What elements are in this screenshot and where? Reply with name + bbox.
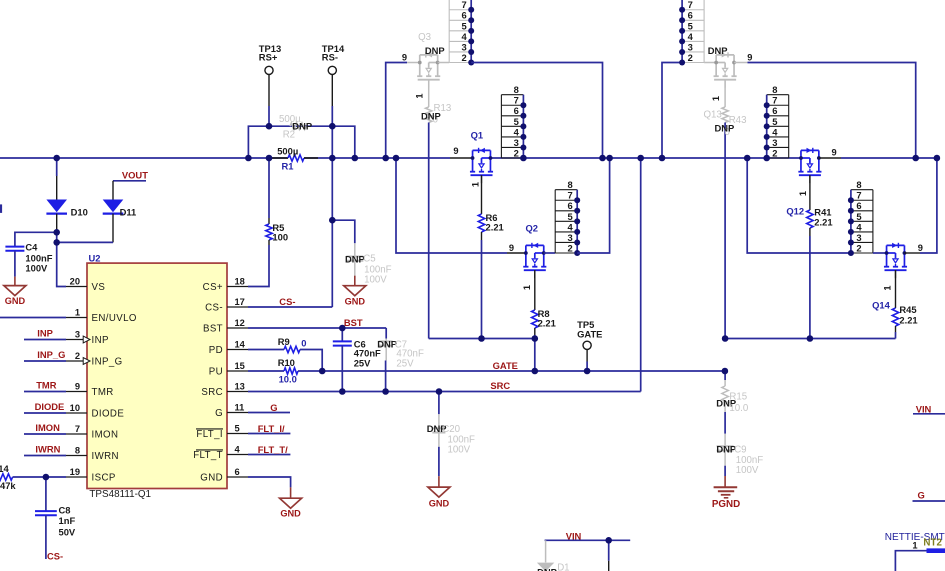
pin 9 label Q14 gate — [918, 243, 923, 253]
svg-text:DNP: DNP — [537, 566, 557, 571]
wire net IMON stub — [24, 433, 66, 435]
node ISCP/C8 junction — [43, 474, 50, 481]
capacitor C8 1nF 50V — [35, 477, 57, 559]
svg-text:7: 7 — [75, 424, 80, 434]
svg-text:GATE: GATE — [493, 360, 518, 371]
svg-text:100V: 100V — [448, 444, 471, 455]
svg-text:RS-: RS- — [322, 52, 338, 63]
svg-text:7: 7 — [856, 190, 861, 201]
resistor R45 2.21 on Q14 source — [892, 270, 898, 338]
label TP5 GATE — [577, 319, 602, 339]
wire net DIODE stub — [24, 412, 66, 414]
svg-text:2.21: 2.21 — [899, 314, 917, 325]
net tie NT2 NETTIE-SMT2 — [885, 532, 945, 571]
svg-text:BST: BST — [203, 324, 223, 335]
svg-text:C20: C20 — [442, 424, 460, 435]
net label G — [270, 402, 277, 413]
svg-text:6: 6 — [567, 200, 572, 211]
wire FLT_T stub pin 4 — [248, 454, 290, 456]
net label CS- bottom — [47, 550, 63, 561]
wire GATE rail (PU) — [322, 370, 725, 372]
svg-text:9: 9 — [402, 52, 407, 62]
pin 9 label Q13 gate — [747, 52, 752, 62]
svg-text:GND: GND — [345, 296, 366, 306]
net label SRC — [490, 380, 510, 391]
svg-text:5: 5 — [514, 116, 519, 127]
svg-text:7: 7 — [461, 0, 466, 10]
svg-text:Q14: Q14 — [872, 299, 891, 310]
net label BST — [344, 317, 363, 328]
svg-text:15: 15 — [235, 361, 245, 371]
capacitor C5 DNP (grey) — [346, 243, 363, 277]
svg-text:10: 10 — [70, 403, 80, 413]
svg-text:9: 9 — [75, 381, 80, 391]
pin 19 ISCP of U2 — [66, 467, 116, 484]
resistor R9 0 — [248, 346, 322, 371]
designator D11 — [120, 207, 137, 218]
pin 14 PD of U2 — [209, 339, 248, 356]
svg-text:VS: VS — [92, 282, 106, 293]
node VOUT label — [113, 169, 148, 181]
svg-text:PU: PU — [209, 367, 223, 378]
wire Q14 gate riser — [904, 158, 936, 253]
svg-text:2: 2 — [772, 147, 777, 158]
svg-text:5: 5 — [856, 211, 861, 222]
wire Q14 stack riser — [747, 158, 851, 253]
pin 9 TMR of U2 — [66, 381, 114, 398]
DNP label for Q13 — [708, 45, 728, 56]
pin 11 G of U2 — [215, 402, 248, 419]
svg-text:4: 4 — [567, 221, 573, 232]
svg-text:G: G — [270, 402, 277, 413]
value labels C4 — [25, 242, 52, 274]
svg-text:Q12: Q12 — [786, 205, 804, 216]
svg-text:FLT_I/: FLT_I/ — [258, 423, 285, 434]
svg-text:RS+: RS+ — [259, 52, 278, 63]
pin stack of Q3 (grey ladder) — [449, 0, 474, 66]
pin 1 label Q12 — [798, 191, 808, 196]
svg-text:R15: R15 — [729, 392, 747, 403]
pin 18 CS+ of U2 — [203, 276, 248, 293]
svg-text:FLT_I: FLT_I — [196, 429, 223, 440]
designator Q1 — [471, 130, 484, 141]
svg-text:D1: D1 — [557, 562, 569, 571]
svg-text:1: 1 — [415, 93, 425, 98]
pin 1 EN/UVLO of U2 — [66, 307, 137, 324]
svg-text:2.21: 2.21 — [814, 217, 832, 228]
pin 9 label Q3 gate — [402, 52, 407, 62]
labels R10 10.0 — [278, 357, 297, 385]
svg-text:3: 3 — [461, 41, 466, 52]
designator D1 (grey) — [557, 562, 569, 571]
pin 5 FLT_I of U2 — [196, 423, 248, 440]
svg-text:C9: C9 — [734, 444, 746, 455]
labels R41 2.21 — [814, 206, 832, 227]
junction dots misc — [53, 123, 813, 544]
node VIN label right — [913, 403, 945, 414]
svg-text:100: 100 — [272, 232, 288, 243]
node G label right — [913, 489, 945, 501]
svg-text:9: 9 — [832, 148, 837, 158]
svg-text:5: 5 — [567, 211, 572, 222]
resistor R43 DNP 0 (grey) on Q13 source — [722, 80, 728, 339]
resistor R6 2.21 on Q1 source — [478, 175, 484, 338]
designator R2 (grey) — [283, 130, 295, 141]
svg-text:9: 9 — [918, 243, 923, 253]
wire D11 cathode to D10 node — [57, 241, 113, 243]
svg-text:2: 2 — [75, 351, 80, 361]
pin stack of Q1 — [501, 84, 526, 161]
wire Q2 gate riser — [396, 158, 526, 253]
svg-text:8: 8 — [772, 84, 777, 95]
svg-text:8: 8 — [75, 445, 80, 455]
svg-text:GND: GND — [5, 296, 26, 306]
svg-text:VOUT: VOUT — [122, 169, 148, 180]
svg-text:4: 4 — [772, 126, 778, 137]
wire Q2 drain to stack — [544, 252, 555, 254]
svg-text:GND: GND — [200, 473, 223, 484]
net label CS- — [279, 296, 295, 307]
svg-text:4: 4 — [514, 126, 520, 137]
svg-text:5: 5 — [772, 116, 777, 127]
designator R1 — [282, 161, 294, 172]
wire CS+ riser to pin 18 — [248, 245, 269, 287]
designator Q2 — [526, 223, 539, 234]
labels R9 0 — [278, 336, 307, 349]
pin 13 SRC of U2 — [201, 381, 248, 398]
diode D11 — [103, 181, 124, 243]
svg-text:18: 18 — [235, 276, 245, 286]
wire VIN bottom — [545, 540, 631, 571]
resistor R10 10.0 — [248, 368, 322, 374]
wire BST rail — [248, 327, 386, 329]
svg-text:FLT_T/: FLT_T/ — [258, 444, 288, 455]
svg-text:8: 8 — [567, 179, 572, 190]
svg-text:4: 4 — [235, 444, 241, 454]
svg-text:CS-: CS- — [279, 296, 295, 307]
svg-text:7: 7 — [514, 95, 519, 106]
svg-text:20: 20 — [70, 276, 80, 286]
wire GND pin 6 to ground — [248, 477, 291, 487]
pin stack of Q13 (grey ladder) — [679, 0, 704, 66]
svg-text:9: 9 — [509, 243, 514, 253]
resistor R14 47k (cut at edge) — [0, 474, 66, 480]
svg-text:9: 9 — [453, 146, 458, 156]
wire Q13 stack to fet — [704, 62, 716, 64]
svg-text:IWRN: IWRN — [35, 444, 60, 455]
svg-text:IMON: IMON — [92, 430, 119, 441]
designator Q3 — [418, 32, 431, 43]
svg-text:R9: R9 — [278, 336, 290, 347]
pin 1 label Q13 — [711, 96, 721, 101]
resistor R8 2.21 on Q2 source — [532, 270, 538, 371]
svg-text:1: 1 — [471, 182, 481, 187]
net label GATE — [493, 360, 518, 371]
svg-text:3: 3 — [75, 329, 80, 339]
capacitor C7 DNP 470nF (grey) — [379, 328, 393, 392]
capacitor C20 DNP 100nF (grey) — [432, 392, 445, 477]
wire Q13 gate riser — [734, 63, 916, 159]
svg-text:BST: BST — [344, 317, 363, 328]
pin 15 PU of U2 — [209, 361, 248, 378]
test point TP13 RS+ — [265, 66, 273, 126]
svg-text:4: 4 — [856, 221, 862, 232]
svg-text:13: 13 — [235, 381, 245, 391]
svg-text:1: 1 — [912, 541, 917, 551]
svg-text:14: 14 — [235, 339, 246, 349]
svg-text:Q2: Q2 — [526, 223, 539, 234]
svg-text:5: 5 — [461, 20, 466, 31]
DNP label for R15 — [716, 397, 736, 408]
capacitor C9 DNP 100nF (grey) — [717, 434, 734, 476]
svg-text:1: 1 — [711, 96, 721, 101]
svg-text:100V: 100V — [736, 465, 759, 476]
svg-text:50V: 50V — [59, 526, 76, 537]
svg-text:100nF: 100nF — [736, 455, 764, 466]
net label FLT_T/ — [258, 444, 288, 455]
svg-text:10.0: 10.0 — [729, 403, 748, 414]
wire C4 branch — [15, 232, 57, 246]
wire G stub pin 11 — [248, 412, 290, 414]
pin 1 label Q2 — [522, 285, 532, 290]
pin 8 IWRN of U2 — [66, 445, 119, 462]
svg-text:3: 3 — [514, 137, 519, 148]
pin 9 label Q12 gate — [832, 148, 837, 158]
wire net TMR stub — [24, 391, 66, 393]
DNP label for D1 (cut) — [537, 566, 557, 571]
svg-text:SRC: SRC — [490, 380, 510, 391]
svg-text:3: 3 — [688, 41, 693, 52]
wire D10 node down to VS pin — [57, 232, 66, 286]
svg-text:DIODE: DIODE — [35, 401, 65, 412]
labels R13 0 (grey) — [433, 103, 452, 126]
svg-text:100V: 100V — [25, 262, 48, 273]
value labels C20 (grey) — [442, 424, 475, 456]
svg-text:ISCP: ISCP — [92, 473, 116, 484]
svg-text:DNP: DNP — [708, 45, 728, 56]
svg-text:1: 1 — [75, 307, 80, 317]
wire R13-R6-R8 interconnect — [429, 338, 535, 340]
value labels C8 — [59, 505, 76, 538]
svg-text:2: 2 — [567, 242, 572, 253]
node VIN label bottom — [566, 530, 582, 541]
svg-text:2: 2 — [514, 147, 519, 158]
svg-text:SRC: SRC — [201, 387, 223, 398]
junction dots on main bus — [53, 155, 940, 162]
wire Q12 gate to risers — [819, 157, 841, 159]
labels R43 0 (grey) — [725, 115, 747, 138]
labels R6 2.21 — [486, 212, 504, 232]
svg-text:2.21: 2.21 — [486, 221, 504, 232]
svg-text:GND: GND — [429, 499, 450, 509]
svg-text:R10: R10 — [278, 357, 295, 368]
label TP13 RS+ — [259, 43, 281, 63]
ground GND under C4 — [4, 277, 26, 307]
wire FLT_I stub pin 5 — [248, 433, 290, 435]
svg-text:1: 1 — [522, 285, 532, 290]
svg-text:Q1: Q1 — [471, 130, 484, 141]
resistor R41 2.21 on Q12 source — [807, 175, 813, 338]
pin 9 label Q2 gate — [509, 243, 514, 253]
wire Q14 stack to fet — [873, 252, 887, 254]
svg-text:3: 3 — [567, 232, 572, 243]
svg-text:25V: 25V — [354, 358, 371, 369]
IC U2 TPS48111-Q1 hot-swap controller body — [87, 263, 227, 488]
svg-text:C4: C4 — [25, 242, 38, 253]
diode D1 DNP (grey) — [537, 540, 554, 571]
labels R15 10.0 (grey) — [729, 392, 748, 415]
resistor R2 DNP 500u (grey) — [290, 123, 306, 129]
svg-text:9: 9 — [747, 52, 752, 62]
svg-text:DNP: DNP — [292, 121, 312, 132]
svg-text:5: 5 — [688, 20, 693, 31]
svg-text:R1: R1 — [282, 161, 294, 172]
wire Q3 stack to bus riser — [471, 63, 602, 159]
svg-text:11: 11 — [235, 402, 245, 412]
wire R43-R41-R45 interconnect — [725, 338, 895, 340]
svg-text:8: 8 — [856, 179, 861, 190]
capacitor C4 100nF 100V — [5, 247, 24, 277]
pin 3 INP of U2 — [66, 329, 109, 346]
svg-text:CS-: CS- — [47, 550, 63, 561]
ground GND under pin 6 — [280, 487, 302, 518]
value label 500u for R1 — [277, 145, 298, 156]
svg-text:DNP: DNP — [715, 122, 735, 133]
pin 7 IMON of U2 — [66, 424, 118, 441]
svg-text:VIN: VIN — [916, 403, 932, 414]
svg-text:6: 6 — [514, 105, 519, 116]
svg-text:FLT_T: FLT_T — [193, 450, 223, 461]
svg-text:2: 2 — [461, 52, 466, 63]
wire Q3 drain to pin stack — [438, 62, 450, 64]
wire R2 DNP bypass loop — [248, 126, 354, 158]
svg-text:Q13: Q13 — [704, 110, 722, 121]
resistor R1 500u current sense — [272, 155, 318, 161]
svg-text:7: 7 — [688, 0, 693, 10]
transistor Q14 — [884, 243, 907, 278]
svg-text:1: 1 — [882, 285, 892, 290]
designator U2 — [89, 253, 101, 264]
part number TPS48111-Q1 — [89, 489, 151, 500]
pin 4 FLT_T of U2 — [193, 444, 248, 461]
labels R45 2.21 — [899, 304, 917, 325]
svg-text:GND: GND — [280, 509, 301, 519]
resistor R15 DNP 10.0 (grey) — [722, 371, 728, 434]
pin 1 label Q14 — [882, 285, 892, 290]
DNP label for R43 — [715, 122, 735, 133]
pin stack of Q14 — [848, 179, 873, 256]
pin 1 label Q1 — [471, 182, 481, 187]
svg-text:17: 17 — [235, 297, 245, 307]
svg-text:CS-: CS- — [205, 303, 223, 314]
svg-text:R2: R2 — [283, 130, 295, 141]
svg-text:Q3: Q3 — [418, 32, 431, 43]
svg-text:7: 7 — [567, 190, 572, 201]
svg-text:INP: INP — [37, 328, 53, 339]
DNP label for C7 — [377, 339, 397, 350]
resistor R5 100 — [266, 158, 272, 245]
power ground PGND — [712, 476, 740, 510]
svg-text:R14: R14 — [0, 463, 9, 474]
svg-text:1: 1 — [798, 191, 808, 196]
svg-text:DIODE: DIODE — [92, 409, 125, 420]
svg-text:6: 6 — [772, 105, 777, 116]
ground GND under C20 — [428, 476, 450, 508]
DNP label for R13 — [421, 111, 441, 122]
pin stack of Q12 — [764, 84, 789, 161]
wire CS- net: pin17 riser to TP14/bus — [248, 126, 332, 307]
pin 20 VS of U2 — [66, 276, 105, 293]
svg-text:INP: INP — [92, 335, 109, 346]
pin 6 GND of U2 — [200, 467, 248, 484]
labels R8 2.21 — [538, 308, 556, 328]
wire net INP stub — [24, 339, 66, 341]
svg-text:PGND: PGND — [712, 499, 740, 510]
transistor Q3 (DNP, grey) — [417, 52, 440, 87]
svg-text:3: 3 — [856, 232, 861, 243]
labels R5 100 — [272, 222, 288, 242]
svg-text:IMON: IMON — [35, 422, 60, 433]
wire EN/UVLO from edge — [0, 317, 66, 319]
svg-text:47k: 47k — [0, 480, 16, 491]
svg-text:D10: D10 — [71, 207, 88, 218]
designator D10 — [71, 207, 88, 218]
transistor Q1 — [470, 148, 493, 183]
svg-text:U2: U2 — [89, 253, 101, 264]
svg-text:3: 3 — [772, 137, 777, 148]
svg-text:10.0: 10.0 — [279, 373, 297, 384]
svg-text:2: 2 — [856, 242, 861, 253]
value labels C7 (grey) — [395, 340, 424, 370]
pin 12 BST of U2 — [203, 318, 248, 335]
DNP label for C20 — [427, 423, 447, 434]
wire SRC rail — [248, 158, 641, 392]
svg-text:TMR: TMR — [36, 380, 57, 391]
net labels INP INP_G TMR DIODE IMON IWRN — [35, 328, 66, 455]
svg-text:R45: R45 — [899, 304, 916, 315]
svg-text:6: 6 — [461, 10, 466, 21]
svg-text:6: 6 — [235, 467, 240, 477]
svg-text:INP_G: INP_G — [92, 357, 123, 368]
wire stub left edge — [0, 204, 2, 213]
designator Q12 — [786, 205, 804, 216]
wire main bus VIN/SRC rail y=158 — [0, 157, 937, 159]
ground GND under C5 — [344, 276, 366, 307]
svg-text:12: 12 — [235, 318, 245, 328]
svg-text:500µ: 500µ — [277, 145, 298, 156]
pin 2 INP_G of U2 — [66, 351, 123, 368]
value labels C9 (grey) — [734, 444, 763, 476]
wire net IWRN stub — [24, 455, 66, 457]
resistor R13 DNP 0 (grey) on Q3 source — [426, 80, 432, 339]
svg-text:CS+: CS+ — [203, 282, 223, 293]
svg-text:EN/UVLO: EN/UVLO — [92, 313, 137, 324]
wire net INP_G stub — [24, 360, 66, 362]
svg-text:G: G — [918, 489, 925, 500]
svg-text:100V: 100V — [364, 275, 387, 286]
svg-text:19: 19 — [70, 467, 80, 477]
transistor Q2 — [523, 243, 546, 278]
value labels C5 (grey) — [363, 254, 391, 286]
designator Q14 — [872, 299, 891, 310]
svg-text:4: 4 — [461, 31, 467, 42]
svg-text:IWRN: IWRN — [92, 451, 119, 462]
pin stack of Q2 — [555, 179, 580, 256]
svg-text:DNP: DNP — [421, 111, 441, 122]
labels R14 47k — [0, 463, 16, 491]
svg-text:6: 6 — [856, 200, 861, 211]
pin 1 label Q3 — [415, 93, 425, 98]
